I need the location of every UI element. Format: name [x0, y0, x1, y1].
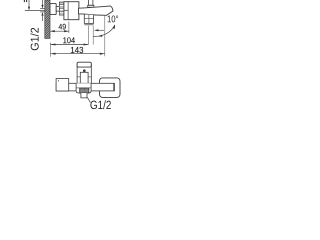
10° annotation	[108, 15, 119, 22]
dimension 104	[51, 43, 89, 45]
spout (side view)	[79, 6, 114, 15]
small arrow at outlet dim	[94, 29, 104, 31]
leader line	[87, 97, 90, 102]
dimension 49	[50, 30, 69, 32]
diverter knob on spout	[88, 0, 94, 7]
extension line: outlet axis	[87, 26, 89, 45]
dimension 143	[51, 53, 105, 55]
collar seam ticks	[77, 76, 80, 78]
tilt arc with arrows	[93, 25, 115, 37]
S-union pipe	[56, 6, 59, 11]
S-union flange	[50, 3, 56, 14]
G1/2 label (hose connection)	[90, 100, 110, 109]
extension line: wall face below hatch	[49, 42, 51, 56]
extension line: spout tip axis	[104, 16, 106, 57]
shower-hose outlet under spout	[84, 15, 93, 25]
G1/2 label (wall connection, rotated)	[30, 28, 38, 50]
mixer body (side view)	[64, 2, 79, 20]
handle dot	[83, 69, 86, 72]
mixer body bar (front view)	[56, 83, 114, 91]
extension line: outlet right	[92, 26, 94, 45]
S-union nut	[59, 2, 64, 15]
aerator knurl	[80, 88, 89, 93]
left union nut (front view)	[56, 79, 69, 91]
lever neck	[77, 65, 91, 84]
vertical dimension arrows (eccentric offset)	[40, 0, 45, 21]
spout housing (front view)	[76, 83, 91, 93]
cartridge cover	[80, 72, 88, 83]
vertical dimension arrow (left)	[25, 0, 46, 11]
right wall flange (front view)	[100, 78, 121, 98]
cropped dimension text at top edge	[24, 0, 26, 2]
G1/2 hose stub	[81, 93, 87, 98]
lever cap	[77, 62, 91, 67]
wall (hatched section)	[45, 0, 50, 38]
extension line: body front face	[68, 22, 70, 34]
